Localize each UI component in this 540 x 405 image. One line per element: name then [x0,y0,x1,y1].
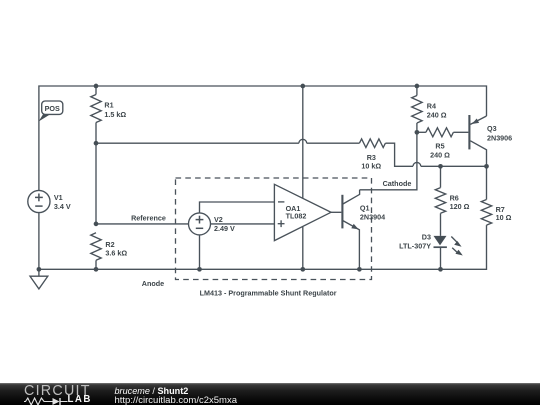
svg-text:Reference: Reference [131,213,166,222]
svg-text:Cathode: Cathode [383,179,412,188]
svg-text:R1: R1 [104,101,113,110]
svg-text:Anode: Anode [142,279,164,288]
svg-text:3.6 kΩ: 3.6 kΩ [105,248,127,257]
svg-text:10 Ω: 10 Ω [496,213,512,222]
svg-text:240 Ω: 240 Ω [430,151,450,160]
svg-text:LM413 - Programmable Shunt Reg: LM413 - Programmable Shunt Regulator [200,288,337,297]
svg-text:240 Ω: 240 Ω [427,111,447,120]
svg-text:1.5 kΩ: 1.5 kΩ [104,110,126,119]
svg-text:Q3: Q3 [487,124,497,133]
svg-text:V2: V2 [214,215,223,224]
svg-text:V1: V1 [54,193,63,202]
svg-text:2N3904: 2N3904 [360,213,385,222]
svg-text:2.49 V: 2.49 V [214,224,235,233]
svg-text:R4: R4 [427,101,436,110]
svg-text:10 kΩ: 10 kΩ [361,161,381,170]
svg-text:3.4 V: 3.4 V [54,202,71,211]
svg-text:R6: R6 [450,193,459,202]
svg-text:R5: R5 [435,141,444,150]
svg-text:LTL-307Y: LTL-307Y [399,242,431,251]
svg-text:D3: D3 [422,233,431,242]
svg-text:TL082: TL082 [286,212,307,221]
svg-text:120 Ω: 120 Ω [450,202,470,211]
svg-text:2N3906: 2N3906 [487,134,512,143]
svg-text:POS: POS [45,104,60,113]
svg-text:Q1: Q1 [360,204,370,213]
